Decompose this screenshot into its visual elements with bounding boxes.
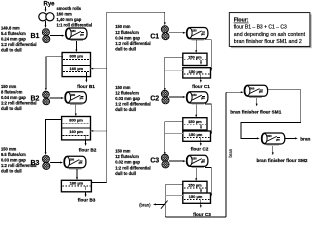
svg-text:12 flutes/cm: 12 flutes/cm [115, 154, 139, 159]
svg-text:flour C1: flour C1 [192, 84, 210, 89]
wire smooth rolls to B1 rolls [45, 21, 47, 26]
svg-text:dull to dull: dull to dull [1, 48, 22, 53]
sifter C3 lower deck [183, 193, 211, 203]
wire sifter C1 lower overs left (gray) [165, 69, 183, 71]
wire detacher C1 overs bypass to lower deck [205, 40, 211, 69]
svg-text:150 µm: 150 µm [189, 194, 203, 199]
svg-text:dull to dull: dull to dull [115, 107, 136, 112]
svg-text:160 µm: 160 µm [69, 129, 83, 134]
svg-text:0.03 mm gap: 0.03 mm gap [1, 158, 26, 163]
svg-text:150 µm: 150 µm [188, 55, 202, 60]
wire flour C1 [200, 75, 202, 79]
sifter B2 throughs arrow [85, 136, 87, 140]
wire sifter B2 mids to riser [91, 130, 107, 132]
svg-text:300: 300 [250, 86, 255, 90]
svg-text:150 mm: 150 mm [1, 84, 17, 89]
sifter B3 [61, 180, 91, 192]
svg-text:(bran): (bran) [139, 202, 151, 207]
svg-text:180: 180 [71, 93, 76, 97]
svg-text:C2: C2 [150, 96, 159, 103]
svg-text:150 mm: 150 mm [1, 147, 17, 152]
svg-text:5.4 flutes/cm: 5.4 flutes/cm [1, 31, 26, 36]
wire detacher C3 overs bypass to lower deck [205, 168, 211, 195]
svg-text:dull to dull: dull to dull [115, 171, 136, 176]
svg-text:160 µm: 160 µm [69, 66, 83, 71]
svg-text:180: 180 [70, 157, 75, 161]
sifter C2 lower deck [183, 131, 211, 141]
svg-text:12 flutes/cm: 12 flutes/cm [115, 91, 139, 96]
wire detacher B1 to sifter B1 [75, 41, 77, 51]
svg-text:149.8 mm: 149.8 mm [1, 26, 20, 31]
svg-text:9.5 flutes/cm: 9.5 flutes/cm [1, 152, 26, 157]
svg-text:300: 300 [267, 134, 272, 138]
svg-text:1,40 mm gap: 1,40 mm gap [57, 17, 82, 22]
svg-text:160 mm: 160 mm [57, 12, 73, 17]
sifter C3 upper deck [183, 181, 207, 193]
wire sifter B2 overs to B3 rolls [60, 119, 62, 121]
wire sifter C3 lower overs left (gray) [165, 195, 183, 197]
wire C2 rolls to detacher C2 [169, 96, 184, 98]
detacher C3 [187, 155, 208, 166]
svg-text:180 µm: 180 µm [70, 181, 84, 186]
optional bran outlet from C3 [155, 203, 165, 205]
wire flour B3 [85, 192, 87, 195]
sifter B2 [62, 117, 91, 140]
detacher C2 [187, 92, 208, 103]
svg-text:150 µm: 150 µm [188, 183, 202, 188]
svg-text:B1: B1 [30, 33, 39, 40]
wire sifter C2 lower overs left (gray) [165, 133, 183, 135]
svg-text:150: 150 [192, 29, 197, 33]
wire detacher B3 to sifter B3 [76, 169, 78, 178]
svg-text:180: 180 [71, 29, 76, 33]
svg-text:bran finisher flour SM2: bran finisher flour SM2 [256, 158, 307, 163]
svg-text:12 flutes/cm: 12 flutes/cm [115, 30, 139, 35]
wire SM2 overs to bran [285, 137, 296, 139]
svg-text:1:2 roll differential: 1:2 roll differential [1, 101, 37, 106]
svg-text:bran: bran [300, 137, 310, 142]
svg-text:flour B1 – B3 + C1 – C3: flour B1 – B3 + C1 – C3 [234, 25, 287, 31]
roll pair C1 [161, 26, 168, 33]
svg-text:1:2 roll differential: 1:2 roll differential [115, 165, 151, 170]
detacher C1 [187, 28, 208, 39]
bran collect bottom wire [165, 216, 226, 218]
svg-text:150 mm: 150 mm [115, 149, 131, 154]
svg-text:flour C2: flour C2 [191, 147, 209, 152]
wire detacher C1 to sifter C1 upper deck [195, 40, 197, 51]
svg-text:150: 150 [192, 93, 197, 97]
svg-text:smooth rolls: smooth rolls [57, 6, 82, 11]
bran finisher SM1 [244, 85, 267, 96]
svg-text:1:1 roll differential: 1:1 roll differential [57, 23, 93, 28]
wire sifter C1 upper overs left [165, 56, 183, 58]
sifter B1 [62, 53, 90, 77]
svg-text:150 mm: 150 mm [115, 24, 131, 29]
wire flour C3 [200, 200, 202, 204]
wire sifter C2 upper overs left [165, 121, 183, 123]
wire detacher B2 to sifter B2 [75, 105, 77, 115]
sifter C2 upper deck [183, 118, 207, 130]
svg-text:dull to dull: dull to dull [1, 106, 22, 111]
svg-text:1:2 roll differential: 1:2 roll differential [115, 102, 151, 107]
svg-text:800 µm: 800 µm [69, 117, 83, 122]
svg-text:0.02 mm gap: 0.02 mm gap [115, 160, 140, 165]
roll pair B3 [42, 155, 49, 162]
svg-text:800 µm: 800 µm [69, 54, 83, 59]
svg-text:1:2 roll differential: 1:2 roll differential [115, 41, 151, 46]
wire SM2 flour down [272, 146, 274, 153]
wire Rye to smooth rolls [45, 7, 47, 11]
wire flour B1 [85, 77, 87, 81]
svg-text:1:2 roll differential: 1:2 roll differential [1, 163, 37, 168]
svg-text:dull to dull: dull to dull [1, 169, 22, 174]
wire detacher C3 to sifter C3 upper deck [195, 168, 197, 180]
wire sifter B1 mids to riser [91, 68, 107, 70]
wire sifter B1 overs to B2 rolls [60, 56, 62, 58]
roll pair B2 [43, 91, 50, 98]
svg-text:C3: C3 [150, 157, 159, 164]
flour summary box [229, 13, 310, 47]
bran finisher SM2 [262, 133, 285, 144]
wire flour C2 [200, 138, 202, 142]
svg-text:Flour:: Flour: [234, 18, 249, 24]
wire flour B2 [85, 140, 87, 144]
sifter C1 upper deck [183, 53, 207, 65]
wire B3 rolls to detacher B3 [50, 162, 62, 164]
bran outlet slash [161, 201, 168, 209]
svg-text:150 µm: 150 µm [188, 119, 202, 124]
svg-text:flour B1: flour B1 [77, 84, 95, 89]
wire C3 overs down to bran collect [164, 185, 166, 217]
riser B mids to C1 [107, 12, 165, 182]
wire sifter C3 upper overs left [165, 184, 183, 186]
svg-text:0.04 mm gap: 0.04 mm gap [1, 95, 26, 100]
svg-text:bran finisher flour SM1 and 2: bran finisher flour SM1 and 2 [234, 39, 302, 45]
roll pair B1 [42, 29, 49, 36]
wire C3 rolls to detacher C3 [169, 160, 184, 162]
roll pair C3 [161, 154, 168, 161]
wire B1 rolls to detacher B1 [50, 35, 63, 37]
svg-text:C1: C1 [150, 34, 159, 41]
wire C1 overs down to C2 rolls [164, 57, 166, 89]
sifter B1 throughs arrow [85, 72, 87, 76]
svg-text:150 µm: 150 µm [189, 69, 203, 74]
bran riser [225, 92, 227, 217]
wire SM1 flour down [256, 98, 258, 105]
svg-text:1:2 roll differential: 1:2 roll differential [1, 42, 37, 47]
detacher B2 [65, 92, 86, 103]
svg-text:bran finisher flour SM1: bran finisher flour SM1 [230, 109, 281, 114]
wire C1 rolls to detacher C1 [169, 32, 184, 34]
wire bran riser to bran finisher SM1 [226, 91, 242, 93]
wire sifter B3 overs to riser [91, 182, 106, 184]
svg-text:0.04 mm gap: 0.04 mm gap [115, 35, 140, 40]
roll pair C2 [161, 90, 168, 97]
svg-text:150 µm: 150 µm [189, 132, 203, 137]
wire detacher C2 overs bypass to lower deck [205, 104, 211, 132]
svg-text:0.24 mm gap: 0.24 mm gap [1, 37, 26, 42]
flour summary box shadow [231, 14, 312, 48]
svg-text:8 flutes/cm: 8 flutes/cm [1, 90, 23, 95]
wire SM1 overs to SM2 [241, 90, 301, 139]
svg-text:and depending on ash content: and depending on ash content [234, 32, 306, 38]
svg-text:0.03 mm gap: 0.03 mm gap [115, 96, 140, 101]
wire C2 overs down to C3 rolls [164, 122, 166, 153]
svg-text:bran: bran [228, 148, 233, 157]
svg-text:flour B3: flour B3 [78, 198, 96, 203]
svg-text:150: 150 [192, 156, 197, 160]
wire detacher C2 to sifter C2 upper deck [195, 104, 197, 115]
smooth rolls [39, 13, 47, 21]
svg-text:flour C3: flour C3 [193, 212, 211, 217]
svg-text:150 mm: 150 mm [115, 85, 131, 90]
sifter B3 throughs arrow [85, 186, 87, 190]
detacher B1 [66, 28, 87, 39]
wire B2 rolls to detacher B2 [50, 97, 63, 99]
sifter C1 lower deck [183, 68, 211, 78]
svg-text:dull to dull: dull to dull [115, 46, 136, 51]
detacher B3 [64, 156, 86, 168]
svg-text:flour B2: flour B2 [79, 147, 97, 152]
